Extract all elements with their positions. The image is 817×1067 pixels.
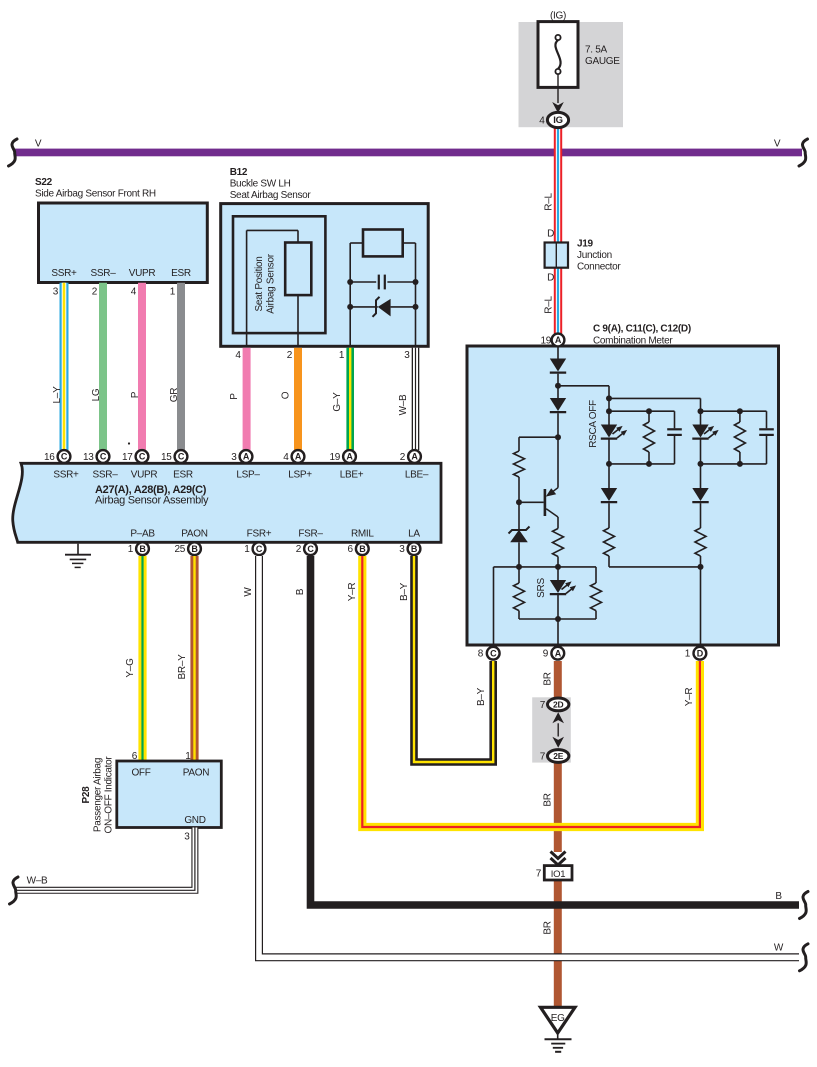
svg-text:SSR–: SSR– bbox=[93, 470, 119, 481]
svg-text:2E: 2E bbox=[553, 751, 563, 761]
svg-text:2D: 2D bbox=[553, 700, 563, 710]
svg-text:(IG): (IG) bbox=[550, 11, 566, 22]
svg-text:LBE–: LBE– bbox=[405, 470, 429, 481]
svg-text:W: W bbox=[774, 943, 784, 954]
svg-text:RMIL: RMIL bbox=[351, 529, 374, 540]
svg-text:1: 1 bbox=[128, 544, 134, 555]
svg-text:ESR: ESR bbox=[173, 470, 193, 481]
svg-text:L–Y: L–Y bbox=[52, 386, 63, 404]
svg-text:SSR+: SSR+ bbox=[51, 268, 77, 279]
svg-text:3: 3 bbox=[404, 350, 410, 361]
svg-text:LG: LG bbox=[91, 388, 102, 401]
svg-text:Side Airbag Sensor Front RH: Side Airbag Sensor Front RH bbox=[35, 189, 156, 200]
svg-text:BR: BR bbox=[543, 921, 554, 934]
svg-text:7: 7 bbox=[540, 752, 546, 763]
svg-text:BR–Y: BR–Y bbox=[177, 654, 188, 680]
svg-text:8: 8 bbox=[478, 649, 484, 660]
svg-text:SRS: SRS bbox=[536, 578, 547, 598]
svg-text:C 9(A), C11(C), C12(D): C 9(A), C11(C), C12(D) bbox=[593, 324, 691, 335]
svg-text:4: 4 bbox=[235, 350, 241, 361]
svg-text:4: 4 bbox=[539, 116, 545, 127]
svg-text:FSR+: FSR+ bbox=[247, 529, 272, 540]
svg-text:B12: B12 bbox=[230, 167, 248, 178]
svg-text:GND: GND bbox=[184, 815, 205, 826]
svg-text:V: V bbox=[35, 139, 42, 150]
svg-text:LBE+: LBE+ bbox=[340, 470, 364, 481]
svg-text:C: C bbox=[307, 544, 314, 554]
svg-text:9: 9 bbox=[543, 649, 549, 660]
svg-text:C: C bbox=[139, 452, 146, 462]
svg-text:7: 7 bbox=[540, 700, 546, 711]
svg-text:1: 1 bbox=[244, 544, 250, 555]
svg-text:17: 17 bbox=[122, 452, 133, 463]
svg-text:Seat Position: Seat Position bbox=[254, 256, 265, 311]
svg-text:W: W bbox=[243, 587, 254, 597]
svg-text:Y–G: Y–G bbox=[125, 658, 136, 678]
svg-text:A: A bbox=[555, 335, 562, 345]
svg-text:D: D bbox=[697, 648, 704, 658]
svg-text:Passenger Airbag: Passenger Airbag bbox=[93, 758, 104, 832]
svg-text:IG: IG bbox=[553, 115, 562, 126]
svg-text:15: 15 bbox=[161, 452, 172, 463]
svg-text:SSR+: SSR+ bbox=[53, 470, 79, 481]
svg-text:6: 6 bbox=[348, 544, 354, 555]
svg-text:4: 4 bbox=[283, 452, 289, 463]
svg-text:V: V bbox=[774, 139, 781, 150]
svg-text:2: 2 bbox=[92, 287, 98, 298]
svg-text:A: A bbox=[295, 452, 302, 462]
svg-text:4: 4 bbox=[131, 287, 137, 298]
svg-text:3: 3 bbox=[231, 452, 237, 463]
svg-text:3: 3 bbox=[184, 832, 190, 843]
svg-text:B: B bbox=[295, 588, 306, 595]
svg-text:A: A bbox=[555, 648, 562, 658]
svg-text:B: B bbox=[191, 544, 198, 554]
svg-text:OFF: OFF bbox=[131, 768, 150, 779]
svg-text:3: 3 bbox=[53, 287, 59, 298]
svg-text:Y–R: Y–R bbox=[347, 583, 358, 602]
svg-text:B: B bbox=[775, 891, 782, 902]
svg-text:S22: S22 bbox=[35, 177, 53, 188]
svg-text:7. 5A: 7. 5A bbox=[585, 45, 607, 56]
svg-text:BR: BR bbox=[543, 793, 554, 806]
svg-text:ON–OFF Indicator: ON–OFF Indicator bbox=[104, 756, 115, 834]
svg-text:19: 19 bbox=[329, 452, 340, 463]
svg-text:LSP+: LSP+ bbox=[288, 470, 312, 481]
svg-text:C: C bbox=[256, 544, 263, 554]
svg-text:C: C bbox=[178, 452, 185, 462]
svg-text:D: D bbox=[547, 273, 554, 284]
svg-text:1: 1 bbox=[339, 350, 345, 361]
svg-text:Y–R: Y–R bbox=[684, 688, 695, 707]
svg-text:P28: P28 bbox=[81, 786, 92, 804]
svg-text:VUPR: VUPR bbox=[131, 470, 158, 481]
svg-text:VUPR: VUPR bbox=[129, 268, 156, 279]
svg-text:C: C bbox=[100, 452, 107, 462]
svg-text:PAON: PAON bbox=[181, 529, 207, 540]
svg-text:O: O bbox=[281, 391, 292, 399]
svg-text:PAON: PAON bbox=[183, 768, 209, 779]
svg-text:W–B: W–B bbox=[27, 876, 48, 887]
svg-text:IO1: IO1 bbox=[551, 869, 565, 880]
svg-text:GR: GR bbox=[169, 388, 180, 402]
svg-text:25: 25 bbox=[174, 544, 185, 555]
svg-text:3: 3 bbox=[399, 544, 405, 555]
svg-text:Seat Airbag Sensor: Seat Airbag Sensor bbox=[230, 190, 312, 201]
svg-text:A: A bbox=[346, 452, 353, 462]
svg-text:B–Y: B–Y bbox=[399, 582, 410, 601]
svg-text:RSCA OFF: RSCA OFF bbox=[588, 400, 599, 448]
svg-text:Buckle SW LH: Buckle SW LH bbox=[230, 179, 291, 190]
svg-text:GAUGE: GAUGE bbox=[585, 56, 620, 67]
svg-text:1: 1 bbox=[185, 751, 191, 762]
svg-text:P: P bbox=[229, 393, 240, 400]
svg-text:R–L: R–L bbox=[544, 296, 555, 314]
svg-text:6: 6 bbox=[132, 751, 138, 762]
svg-text:SSR–: SSR– bbox=[91, 268, 117, 279]
svg-text:Airbag Sensor: Airbag Sensor bbox=[266, 253, 277, 313]
svg-text:FSR–: FSR– bbox=[298, 529, 323, 540]
svg-text:LA: LA bbox=[408, 529, 420, 540]
svg-text:16: 16 bbox=[44, 452, 55, 463]
svg-text:2: 2 bbox=[400, 452, 406, 463]
svg-text:BR: BR bbox=[543, 672, 554, 685]
svg-text:C: C bbox=[490, 648, 497, 658]
svg-text:Airbag Sensor Assembly: Airbag Sensor Assembly bbox=[95, 495, 209, 507]
svg-text:ESR: ESR bbox=[171, 268, 191, 279]
svg-text:Junction: Junction bbox=[577, 250, 612, 261]
svg-text:1: 1 bbox=[685, 649, 691, 660]
svg-text:G–Y: G–Y bbox=[332, 392, 343, 412]
svg-text:Connector: Connector bbox=[577, 262, 621, 273]
svg-text:EG: EG bbox=[551, 1013, 565, 1024]
svg-text:2: 2 bbox=[287, 350, 293, 361]
svg-text:B–Y: B–Y bbox=[476, 687, 487, 706]
svg-text:13: 13 bbox=[83, 452, 94, 463]
svg-text:B: B bbox=[139, 544, 146, 554]
svg-text:P–AB: P–AB bbox=[130, 529, 155, 540]
svg-text:1: 1 bbox=[170, 287, 176, 298]
svg-text:B: B bbox=[359, 544, 366, 554]
svg-text:B: B bbox=[411, 544, 418, 554]
svg-text:J19: J19 bbox=[577, 238, 594, 249]
svg-text:7: 7 bbox=[536, 869, 542, 880]
svg-text:D: D bbox=[547, 229, 554, 240]
svg-text:2: 2 bbox=[296, 544, 302, 555]
svg-text:A: A bbox=[411, 452, 418, 462]
svg-text:P: P bbox=[130, 391, 141, 398]
svg-text:R–L: R–L bbox=[544, 193, 555, 211]
svg-text:W–B: W–B bbox=[398, 394, 409, 415]
svg-text:A: A bbox=[243, 452, 250, 462]
svg-text:C: C bbox=[61, 452, 68, 462]
svg-text:LSP–: LSP– bbox=[236, 470, 260, 481]
